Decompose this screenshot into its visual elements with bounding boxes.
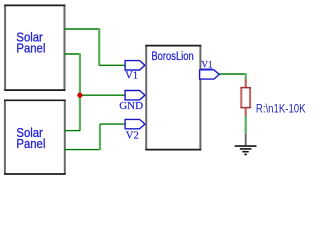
solar panel PV2 (bottom left component box) (4, 100, 66, 174)
junction dot (77, 93, 82, 98)
IC U1 BorosLion (charge controller box) (145, 46, 201, 150)
wire PV2 pin1 stub (65, 130, 80, 132)
wire PV1 pin2 stub (65, 53, 81, 55)
wire into terminal V2 (100, 123, 125, 125)
svg-text:V1: V1 (201, 60, 213, 70)
terminal GND (input) (119, 91, 145, 112)
wire corner down to resistor (245, 74, 247, 80)
solar panel PV1 (top left component box) (4, 5, 65, 90)
svg-text:Panel: Panel (16, 41, 45, 56)
body (241, 88, 250, 108)
terminal V1 (input) (125, 61, 145, 82)
svg-text:V2: V2 (126, 131, 139, 142)
pin 2 lead (245, 108, 247, 117)
wire PV1 pin1 vertical drop (98, 29, 100, 66)
wire PV2 pin2 vertical rise (99, 124, 101, 150)
svg-text:BorosLion: BorosLion (151, 50, 193, 63)
svg-text:GND: GND (119, 100, 143, 112)
terminal V1 (output) (200, 60, 220, 80)
svg-text:V1: V1 (125, 71, 138, 82)
svg-text:Panel: Panel (16, 136, 45, 151)
wire PV1 pin1 to terminal V1 (horizontal run) (65, 28, 101, 30)
terminal V2 (input) (125, 119, 145, 141)
svg-text:R:\n1K-10K: R:\n1K-10K (256, 103, 306, 116)
wire PV2 pin2 horizontal run (65, 149, 100, 151)
wire terminal V1 output to resistor (horizontal) (219, 73, 246, 75)
wire junction to terminal GND (80, 94, 125, 96)
ground symbol (235, 134, 257, 154)
wire common net vertical (79, 54, 81, 131)
wire resistor to ground (245, 116, 247, 134)
resistor R 1K-10K (240, 79, 251, 116)
wire into terminal V1 (99, 64, 125, 66)
pin 1 lead (245, 79, 247, 87)
